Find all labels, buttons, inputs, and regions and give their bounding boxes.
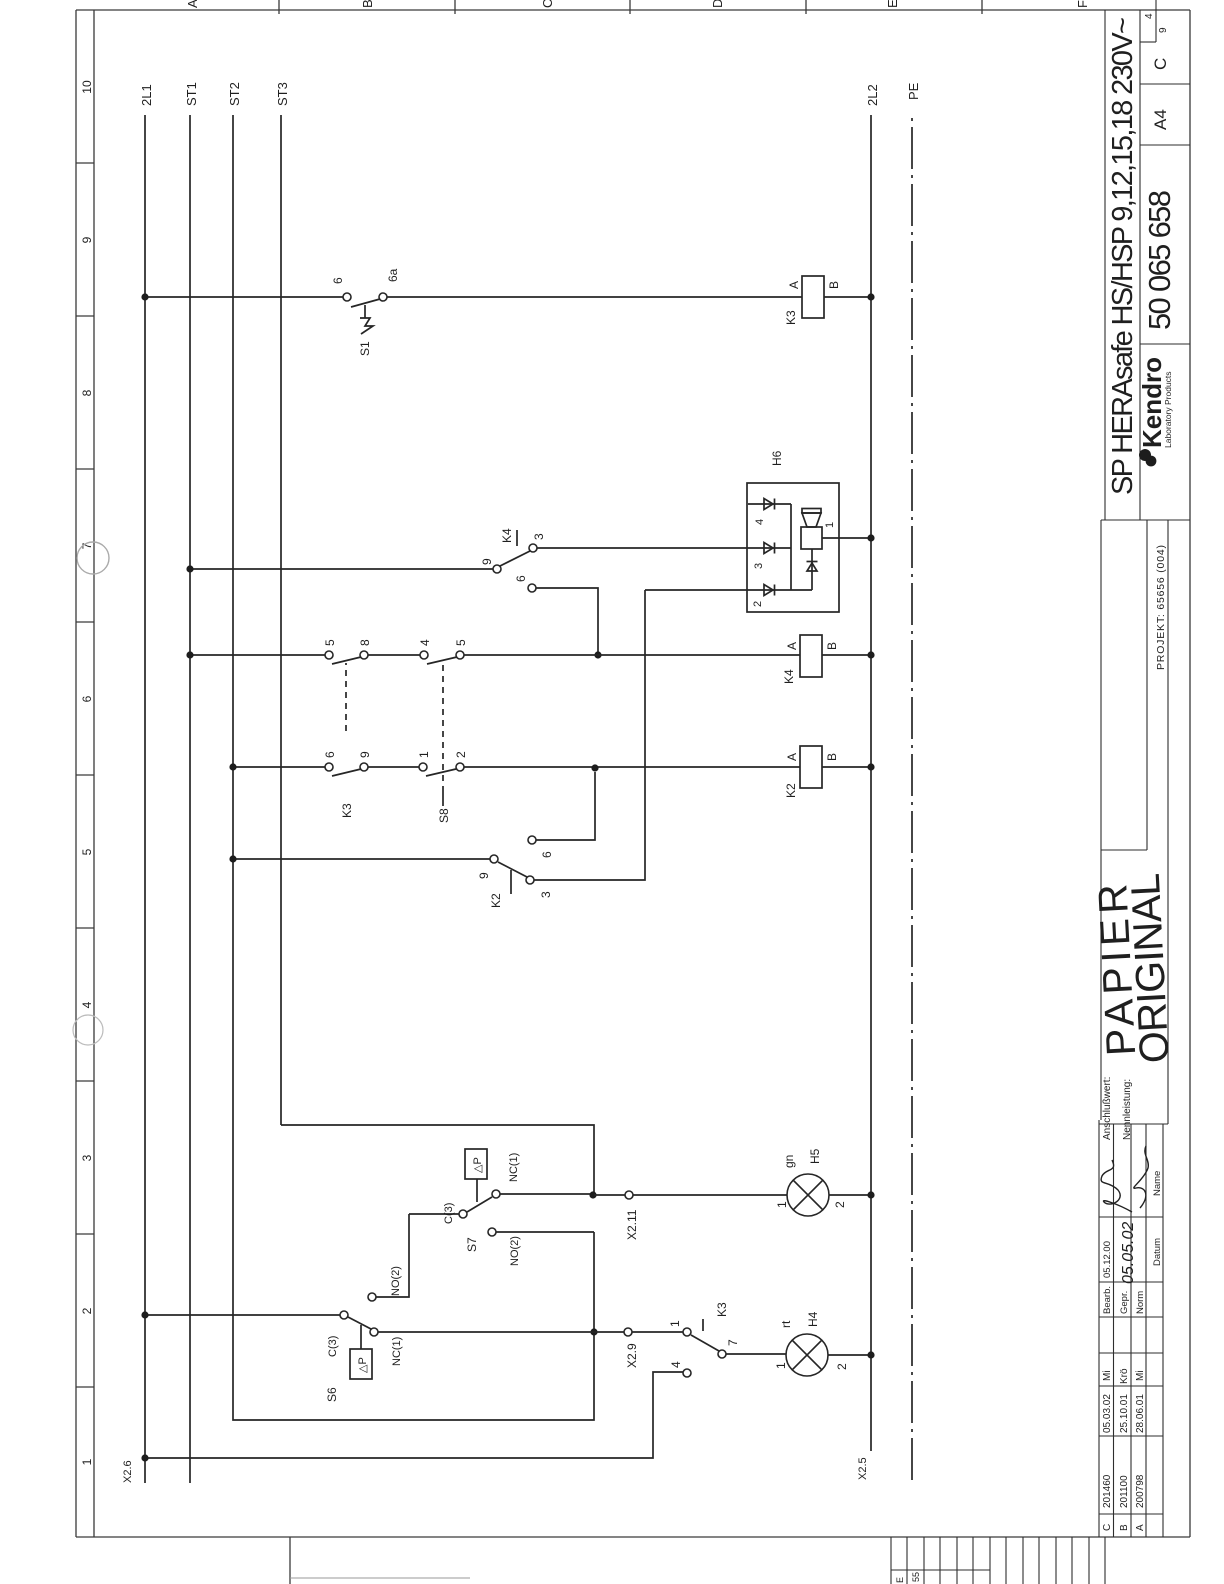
switch S7 NC circle [492, 1190, 500, 1198]
svg-text:Mi: Mi [1135, 1370, 1146, 1381]
svg-text:NC(1): NC(1) [391, 1337, 403, 1366]
node dot 2L2/H6 [867, 534, 874, 541]
wire K2-6 to K2 coil row [536, 772, 595, 840]
left margin faint edge line [290, 1577, 470, 1579]
svg-text:6: 6 [323, 751, 337, 758]
svg-text:X2.11: X2.11 [625, 1209, 639, 1240]
svg-text:C: C [540, 0, 555, 8]
contact K4 blade [500, 551, 530, 566]
node dot K2 row junction [591, 764, 598, 771]
revision table column lines [1099, 1513, 1163, 1515]
rail ST3 [280, 115, 282, 1125]
pressure box S7 link [476, 1179, 478, 1202]
svg-text:ORIGINAL: ORIGINAL [1122, 872, 1178, 1064]
Kendro logo dots [1139, 449, 1151, 461]
svg-text:S8: S8 [437, 808, 451, 823]
node dot 2L2/K2 [867, 763, 874, 770]
switch S1 actuator symbol [360, 318, 373, 334]
coil K2 [800, 746, 822, 788]
title block top line left [1098, 1120, 1100, 1537]
contact K3 blade [332, 657, 361, 664]
svg-text:4: 4 [669, 1361, 683, 1368]
svg-text:B: B [360, 0, 375, 8]
branch K4 coil column from ST1 [190, 654, 871, 656]
svg-text:△P: △P [357, 1357, 369, 1373]
switch S6 NO circle [368, 1293, 376, 1301]
svg-text:3: 3 [539, 891, 553, 898]
contact K4 NC circle 6 [528, 584, 536, 592]
svg-text:A: A [787, 281, 801, 289]
switch S1 actuator linkage [364, 305, 366, 318]
label K4 linkage tick [516, 530, 518, 546]
svg-text:X2.6: X2.6 [122, 1460, 134, 1483]
node dot 2L2/K3 [867, 293, 874, 300]
switch S6 NC circle [370, 1328, 378, 1336]
wire K2-3 to H6 diode 2 [534, 590, 645, 880]
svg-text:2: 2 [833, 1201, 847, 1208]
svg-text:PE: PE [906, 82, 921, 100]
node dot ST1/K4 [186, 565, 193, 572]
rail ST1 [189, 115, 191, 1483]
contact K4 common circle 9 [493, 565, 501, 573]
H6 cathode bus [790, 504, 792, 590]
cell divider number/A4 [1140, 144, 1190, 146]
svg-text:C(3): C(3) [327, 1336, 339, 1357]
branch K2 coil column from ST2 [233, 766, 871, 768]
svg-text:NO(2): NO(2) [509, 1236, 521, 1266]
frame inner top line [93, 10, 95, 1537]
svg-text:9: 9 [358, 751, 372, 758]
H6 diode 4 input wire [748, 503, 791, 505]
svg-text:25.10.01: 25.10.01 [1119, 1394, 1130, 1433]
svg-text:5: 5 [323, 639, 337, 646]
title block top line right [1104, 10, 1106, 520]
svg-text:8: 8 [358, 639, 372, 646]
pressure box S6 [350, 1349, 372, 1379]
coil K3 [802, 276, 824, 318]
svg-text:2L2: 2L2 [865, 84, 880, 106]
contact K3c circle 1 [683, 1328, 691, 1336]
contact S8b circle 2 [456, 763, 464, 771]
svg-text:Anschlußwert:: Anschlußwert: [1102, 1077, 1113, 1140]
buzzer horn cap [802, 509, 821, 514]
projekt cell lines [1146, 520, 1148, 850]
svg-text:B: B [825, 753, 839, 761]
svg-text:4: 4 [754, 519, 766, 525]
svg-text:rt: rt [779, 1320, 793, 1328]
coil K4 [800, 635, 822, 677]
contact K3b circle 9 [360, 763, 368, 771]
branch X2.9/H4 column [378, 1331, 683, 1333]
svg-text:1: 1 [775, 1201, 789, 1208]
node dot ST2/K2coil [229, 763, 236, 770]
punch hole 1 [73, 1015, 103, 1045]
svg-text:05.12.00: 05.12.00 [1102, 1241, 1113, 1278]
svg-text:2: 2 [454, 751, 468, 758]
svg-text:Nennleistung:: Nennleistung: [1122, 1079, 1133, 1140]
H6 diode 2 input wire continuation [645, 589, 812, 591]
cell divider A4/C [1140, 83, 1190, 85]
revision row B [1119, 1368, 1130, 1531]
svg-text:E: E [885, 0, 900, 8]
svg-text:9: 9 [80, 236, 94, 243]
node dot 2L2/K4 [867, 651, 874, 658]
svg-text:A: A [185, 0, 200, 8]
svg-text:SP HERAsafe HS/HSP 9,12,15,18: SP HERAsafe HS/HSP 9,12,15,18 230V~ [1107, 17, 1139, 495]
contact K3b circle 6 [325, 763, 333, 771]
svg-text:C: C [1151, 58, 1170, 70]
svg-text:H6: H6 [770, 450, 784, 466]
svg-text:K2: K2 [784, 783, 798, 798]
svg-text:3: 3 [753, 563, 765, 569]
svg-text:ST3: ST3 [275, 82, 290, 106]
pressure box S6 link [360, 1325, 362, 1349]
svg-text:9: 9 [477, 872, 491, 879]
switch S1 blade [351, 299, 380, 307]
svg-text:Bearb.: Bearb. [1102, 1286, 1113, 1314]
branch H5 column [594, 1194, 871, 1196]
(drawn with ST2 polyline) node dot at X2.9 crossing [590, 1328, 597, 1335]
contact S8 circle 4 [420, 651, 428, 659]
svg-text:1: 1 [824, 522, 836, 528]
left margin ladder table [891, 1537, 1105, 1584]
svg-text:3: 3 [80, 1154, 94, 1161]
svg-text:D: D [710, 0, 725, 8]
svg-text:Mi: Mi [1102, 1370, 1113, 1381]
label K2 linkage tick [510, 870, 512, 894]
svg-text:6a: 6a [386, 268, 400, 282]
contact S8b circle 1 [419, 763, 427, 771]
svg-text:1: 1 [417, 751, 431, 758]
node dot K4-6 junction [594, 651, 601, 658]
contact K2 blade [498, 862, 527, 877]
mechanical linkage K3 contacts dashed [345, 663, 347, 731]
contact K2 NC circle 6 [528, 836, 536, 844]
cell divider Kendro/number [1140, 343, 1190, 345]
svg-text:K3: K3 [715, 1302, 729, 1317]
svg-text:K3: K3 [784, 310, 798, 325]
wire H4 to 2L2 [828, 1354, 871, 1356]
svg-text:4: 4 [80, 1001, 94, 1008]
svg-text:Name: Name [1152, 1171, 1163, 1196]
branch K4 changeover feed from ST1 [190, 568, 493, 570]
frame outer top line [75, 10, 77, 1537]
svg-text:A: A [785, 642, 799, 650]
wire K3c-7 to H4 [726, 1353, 786, 1355]
node dot 2L2/H5 [867, 1191, 874, 1198]
H6 lower diode line [811, 549, 813, 590]
switch S6 common circle [340, 1311, 348, 1319]
buzzer horn [802, 513, 821, 527]
lamp H5 [787, 1174, 829, 1216]
contact K4 NO circle 3 [529, 544, 537, 552]
svg-text:Norm: Norm [1135, 1291, 1146, 1314]
switch S6 blade [348, 1317, 371, 1329]
svg-text:F: F [1075, 0, 1090, 8]
switch S6 feed from 2L1 [145, 1314, 340, 1316]
left margin tick [289, 1537, 291, 1584]
diode 4 [764, 499, 773, 510]
svg-text:5: 5 [454, 639, 468, 646]
wire X2.6 line from 2L1 to K3c-4 [145, 1372, 683, 1458]
svg-text:S7: S7 [465, 1237, 479, 1252]
svg-text:4: 4 [418, 639, 432, 646]
H6 buzzer box [747, 483, 839, 612]
approval labels [1102, 1171, 1163, 1314]
svg-text:H4: H4 [806, 1311, 820, 1327]
svg-text:B: B [825, 642, 839, 650]
svg-text:8: 8 [80, 389, 94, 396]
signature scribble 2 [1134, 1146, 1149, 1208]
svg-text:NC(1): NC(1) [508, 1153, 520, 1182]
svg-text:ST2: ST2 [227, 82, 242, 106]
svg-text:1: 1 [774, 1362, 788, 1369]
svg-text:B: B [1119, 1524, 1130, 1531]
svg-text:9: 9 [480, 558, 494, 565]
rail 2L2 [870, 115, 872, 1451]
svg-text:201100: 201100 [1119, 1475, 1130, 1508]
pressure box S7 [465, 1149, 487, 1179]
svg-text:△P: △P [472, 1157, 484, 1173]
lamp H4 [786, 1334, 828, 1376]
svg-text:X2.5: X2.5 [857, 1457, 869, 1480]
svg-text:A: A [1135, 1524, 1146, 1531]
rail 2L1 [144, 115, 146, 1483]
H6 lower diode [807, 563, 817, 571]
column numbers 1-10 [80, 80, 94, 1465]
wire ST3 down-column to X2.11 node [281, 1125, 594, 1195]
svg-text:2: 2 [752, 601, 764, 607]
wire S7-NC to X2.11 node [500, 1193, 590, 1195]
frame left border [76, 1536, 1190, 1538]
node dot 2L1/S1 [141, 293, 148, 300]
switch S7 blade [467, 1197, 492, 1212]
svg-text:6: 6 [514, 575, 528, 582]
svg-text:5: 5 [80, 848, 94, 855]
svg-text:S1: S1 [358, 341, 372, 356]
wire S7-NO stub [496, 1231, 594, 1233]
node dot ST1/K4coil [186, 651, 193, 658]
contact K3b blade [332, 769, 361, 776]
rail PE dash-dot [911, 115, 913, 1480]
svg-text:05.03.02: 05.03.02 [1102, 1394, 1113, 1433]
node dot 2L1/S6 [141, 1311, 148, 1318]
contact S8 blade [427, 657, 457, 664]
svg-text:50 065 658: 50 065 658 [1142, 190, 1177, 330]
punch hole 2 [77, 542, 109, 574]
contact K2 common circle 9 [490, 855, 498, 863]
svg-text:Gepr.: Gepr. [1119, 1291, 1130, 1314]
revision table row lines [1113, 1124, 1115, 1537]
svg-text:2: 2 [835, 1363, 849, 1370]
contact K3c blade [691, 1335, 719, 1351]
frame right border [76, 9, 1190, 11]
node dot 2L1/X2.6 [141, 1454, 148, 1461]
H6 output wire [822, 537, 871, 539]
svg-text:S6: S6 [325, 1387, 339, 1402]
switch S7 common feed [409, 1213, 459, 1215]
wire K4-6 to K4 coil branch [536, 588, 598, 655]
svg-text:2: 2 [80, 1307, 94, 1314]
svg-text:K4: K4 [782, 669, 796, 684]
svg-text:NO(2): NO(2) [390, 1266, 402, 1296]
column divider ticks top strip [76, 163, 94, 1387]
switch S7 common circle [459, 1210, 467, 1218]
svg-text:6: 6 [540, 851, 554, 858]
svg-text:9: 9 [1158, 27, 1169, 33]
svg-text:A4: A4 [1151, 109, 1170, 130]
svg-text:6: 6 [331, 277, 345, 284]
PAPIER ORIGINAL stamp [1089, 872, 1178, 1066]
svg-text:Laboratory Products: Laboratory Products [1163, 371, 1173, 448]
node dot ST2/K2sw [229, 855, 236, 862]
svg-text:55: 55 [911, 1572, 921, 1582]
svg-text:1: 1 [80, 1458, 94, 1465]
diode 2 [764, 585, 773, 596]
revision row A [1135, 1370, 1146, 1531]
svg-text:H5: H5 [808, 1148, 822, 1164]
branch S1/K3 vertical wire [145, 296, 871, 298]
node dot 2L2/H4 [867, 1351, 874, 1358]
svg-text:PROJEKT: 65656 (004): PROJEKT: 65656 (004) [1155, 545, 1167, 670]
wire K4-3 to H6 diode 3 [537, 547, 791, 549]
contact K3c circle 7 [718, 1350, 726, 1358]
frame bottom border [1189, 10, 1191, 1537]
contact K3 circle 5 [325, 651, 333, 659]
row letters right margin (clipped) [185, 0, 1090, 8]
terminal X2.11 circle [625, 1191, 633, 1199]
svg-text:A: A [785, 753, 799, 761]
revision row C [1102, 1370, 1113, 1531]
svg-text:X2.9: X2.9 [625, 1343, 639, 1368]
switch S7 NO circle [488, 1228, 496, 1236]
contact K2 NO circle 3 [526, 876, 534, 884]
svg-text:K3: K3 [340, 803, 354, 818]
svg-text:6: 6 [80, 695, 94, 702]
svg-text:C(3): C(3) [443, 1203, 455, 1224]
svg-text:C: C [1102, 1524, 1113, 1531]
wire S6-NO to S7 common [376, 1214, 409, 1297]
contact S8b blade [426, 769, 456, 776]
branch K2 changeover from ST2 [233, 858, 490, 860]
sheet cells [1140, 41, 1156, 43]
svg-text:E: E [895, 1577, 905, 1583]
switch S1 contact circles [343, 293, 351, 301]
rail ST2 with end branch to S7-NO node [233, 115, 594, 1420]
svg-text:201460: 201460 [1102, 1474, 1113, 1508]
svg-text:gn: gn [782, 1155, 796, 1168]
svg-text:3: 3 [532, 533, 546, 540]
svg-text:05.05.02: 05.05.02 [1120, 1222, 1137, 1284]
svg-text:2L1: 2L1 [139, 84, 154, 106]
svg-text:K2: K2 [489, 893, 503, 908]
svg-text:28.06.01: 28.06.01 [1135, 1394, 1146, 1433]
title block top line mid [1100, 520, 1102, 1120]
contact K3c circle 4 [683, 1369, 691, 1377]
svg-text:4: 4 [1144, 13, 1155, 19]
svg-text:Krö: Krö [1119, 1368, 1130, 1384]
label K3 linkage tick [702, 1319, 704, 1331]
signature scribble 1 [1101, 1160, 1132, 1212]
svg-text:7: 7 [726, 1339, 740, 1346]
svg-text:B: B [827, 281, 841, 289]
svg-text:Datum: Datum [1152, 1238, 1163, 1266]
contact K3 circle 8 [360, 651, 368, 659]
svg-text:10: 10 [80, 80, 94, 94]
mechanical linkage S8 dashed [442, 663, 444, 792]
contact S8 circle 5 [456, 651, 464, 659]
row divider ticks right margin [279, 0, 982, 14]
divider X734 [1101, 849, 1147, 851]
terminal X2.9 circle [624, 1328, 632, 1336]
title cell divider [1101, 519, 1190, 521]
svg-text:K4: K4 [500, 528, 514, 543]
svg-text:1: 1 [668, 1320, 682, 1327]
svg-text:ST1: ST1 [184, 82, 199, 106]
diode 3 [764, 543, 773, 554]
svg-text:200798: 200798 [1135, 1474, 1146, 1508]
buzzer body [801, 527, 822, 549]
node dot X2.11 junction [589, 1191, 596, 1198]
